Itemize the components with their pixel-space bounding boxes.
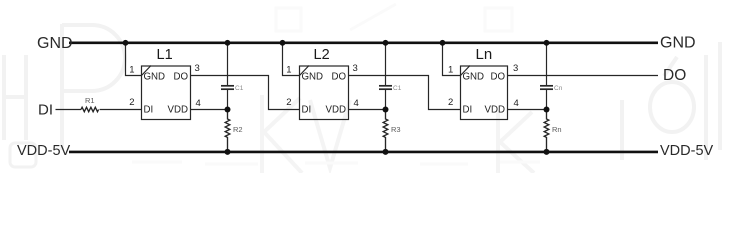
junction R2 on VDD rail (225, 149, 231, 155)
wire DI input (56, 109, 82, 111)
junction Ln pin1 on GND rail (440, 40, 446, 46)
watermark letter H left (4, 55, 26, 140)
svg-text:4: 4 (354, 98, 359, 109)
resistor R3 (383, 110, 388, 152)
svg-text:DO: DO (173, 72, 188, 83)
svg-text:C1: C1 (235, 85, 244, 92)
svg-text:4: 4 (196, 98, 201, 109)
svg-text:GND: GND (463, 72, 485, 83)
watermark letter V middle (310, 100, 350, 168)
wire VDD-5V rail (69, 151, 658, 154)
watermark faint bottom letter bases (132, 162, 540, 164)
junction C2 R3 node (383, 107, 389, 113)
svg-text:DI: DI (144, 105, 154, 116)
svg-text:2: 2 (129, 97, 134, 108)
svg-text:3: 3 (513, 63, 518, 74)
wire L2 pin3 DO to next DI (349, 76, 461, 110)
junction C1 R2 node (225, 107, 231, 113)
svg-text:DI: DI (302, 105, 312, 116)
svg-text:1: 1 (448, 65, 453, 76)
wire L1 pin4 VDD (191, 109, 228, 111)
svg-text:Ln: Ln (476, 46, 493, 63)
svg-text:Cn: Cn (554, 85, 563, 92)
svg-text:DO: DO (663, 67, 686, 84)
junction R3 on VDD rail (383, 149, 389, 155)
svg-text:1: 1 (129, 65, 134, 76)
capacitor C2 (385, 43, 387, 85)
svg-text:GND: GND (660, 35, 696, 52)
svg-text:L1: L1 (157, 47, 173, 63)
wire L2 pin1 to GND rail (283, 43, 300, 76)
junction Cn Rn node (544, 107, 550, 113)
svg-text:DI: DI (463, 105, 473, 116)
svg-text:2: 2 (286, 97, 291, 108)
watermark letter K middle (262, 95, 302, 173)
svg-text:DI: DI (38, 102, 53, 119)
wire Ln pin4 VDD (508, 109, 547, 111)
svg-text:R1: R1 (85, 96, 95, 105)
wire L2 pin4 VDD (349, 109, 386, 111)
junction Rn on VDD rail (544, 149, 550, 155)
wire Ln pin1 to GND rail (443, 43, 461, 76)
wire GND rail (69, 41, 658, 44)
resistor Rn (544, 110, 549, 152)
IC Ln chamfer (461, 66, 471, 76)
svg-text:VDD: VDD (326, 105, 346, 116)
IC L1 box (142, 66, 191, 120)
svg-text:R2: R2 (233, 125, 243, 134)
watermark bars right edge (622, 42, 720, 160)
watermark small box bottom-left (10, 143, 36, 167)
watermark letter K right-middle (498, 110, 534, 173)
IC Ln box (461, 66, 508, 120)
IC L1 chamfer (142, 66, 152, 76)
svg-text:GND: GND (37, 35, 73, 52)
svg-text:GND: GND (144, 72, 166, 83)
wire R1 to L1 pin2 (100, 109, 142, 111)
svg-text:GND: GND (302, 72, 324, 83)
capacitor C1 (227, 43, 229, 85)
resistor R2 (225, 110, 230, 152)
svg-text:R3: R3 (391, 125, 401, 134)
svg-text:2: 2 (448, 97, 453, 108)
wire L1 pin3 DO to next DI (191, 76, 300, 110)
svg-text:VDD: VDD (168, 105, 188, 116)
svg-text:3: 3 (195, 63, 200, 74)
capacitor Cn (546, 43, 548, 85)
junction L2 pin1 on GND rail (280, 40, 286, 46)
junction Cn on GND rail (544, 40, 550, 46)
wire Ln pin3 DO output (508, 75, 659, 77)
junction C2 on GND rail (383, 40, 389, 46)
watermark faint top shapes (276, 4, 512, 31)
svg-text:4: 4 (514, 98, 519, 109)
IC L2 box (300, 66, 349, 120)
resistor R1 (81, 107, 99, 111)
junction L1 pin1 on GND rail (123, 40, 129, 46)
svg-text:1: 1 (286, 65, 291, 76)
svg-text:VDD-5V: VDD-5V (660, 143, 714, 159)
svg-text:VDD: VDD (485, 105, 505, 116)
svg-text:L2: L2 (314, 47, 330, 63)
svg-text:3: 3 (353, 63, 358, 74)
wire L1 pin1 to GND rail (126, 43, 142, 76)
svg-text:Rn: Rn (552, 125, 562, 134)
IC L2 chamfer (300, 66, 310, 76)
watermark letter o-acute right (650, 57, 694, 132)
svg-text:DO: DO (331, 72, 346, 83)
svg-text:C1: C1 (393, 85, 402, 92)
svg-text:DO: DO (490, 72, 505, 83)
junction C1 on GND rail (225, 40, 231, 46)
svg-text:VDD-5V: VDD-5V (17, 143, 71, 159)
watermark letter P left (62, 24, 125, 150)
